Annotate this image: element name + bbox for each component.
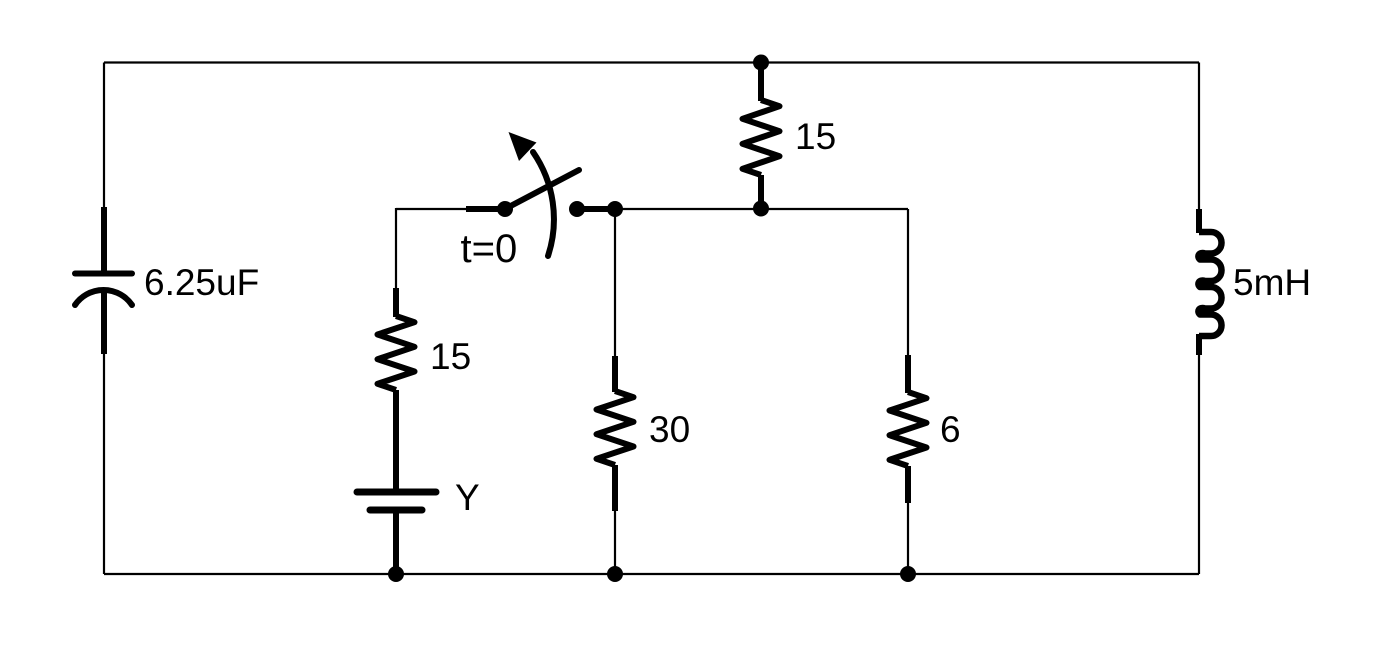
node top junction <box>753 55 769 71</box>
wire left branch vertical from switch <box>395 208 397 290</box>
svg-text:5mH: 5mH <box>1233 262 1311 303</box>
svg-text:15: 15 <box>430 336 471 377</box>
capacitor 6.25uF <box>75 207 132 354</box>
wire bottom <box>104 573 1199 575</box>
node battery/bottom junction <box>388 566 404 582</box>
wire resistor6 branch lower <box>907 500 909 574</box>
resistor 15 (top) <box>743 63 780 208</box>
svg-text:30: 30 <box>649 409 690 450</box>
battery Y <box>357 492 436 568</box>
switch arrowhead <box>509 132 537 161</box>
wire left lower <box>103 290 105 574</box>
svg-text:Y: Y <box>455 477 480 518</box>
svg-text:15: 15 <box>795 116 836 157</box>
switch t=0 <box>466 152 615 256</box>
resistor 6 <box>890 355 927 503</box>
node resistor15/middle-wire junction <box>753 201 769 217</box>
switch contact dot right / node junction <box>607 201 623 217</box>
wire right lower <box>1198 352 1200 574</box>
switch pole dot <box>497 201 513 217</box>
wire resistor30 branch lower <box>614 508 616 574</box>
wire left <box>103 63 105 273</box>
wire middle (switch to right corner) <box>615 208 908 210</box>
resistor 30 <box>597 356 634 511</box>
svg-text:6.25uF: 6.25uF <box>144 262 259 303</box>
wire middle left segment <box>396 208 466 210</box>
inductor 5mH <box>1198 209 1221 355</box>
wire top <box>104 61 1199 63</box>
wire right upper <box>1198 63 1200 213</box>
switch contact dot left <box>569 201 585 217</box>
resistor 15 (left branch) <box>378 288 415 489</box>
node resistor30/bottom junction <box>607 566 623 582</box>
svg-text:t=0: t=0 <box>461 227 518 271</box>
wire resistor30 branch upper <box>614 209 616 360</box>
svg-text:6: 6 <box>940 409 961 450</box>
node resistor6/bottom junction <box>900 566 916 582</box>
wire resistor6 branch upper <box>907 209 909 360</box>
